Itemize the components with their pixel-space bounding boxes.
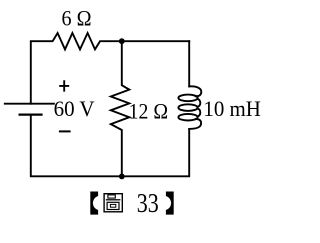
svg-text:10 mH: 10 mH	[203, 96, 261, 121]
svg-text:33: 33	[137, 187, 159, 218]
svg-text:60 V: 60 V	[54, 96, 95, 121]
svg-text:6 Ω: 6 Ω	[62, 5, 92, 30]
svg-text:12 Ω: 12 Ω	[129, 98, 169, 123]
